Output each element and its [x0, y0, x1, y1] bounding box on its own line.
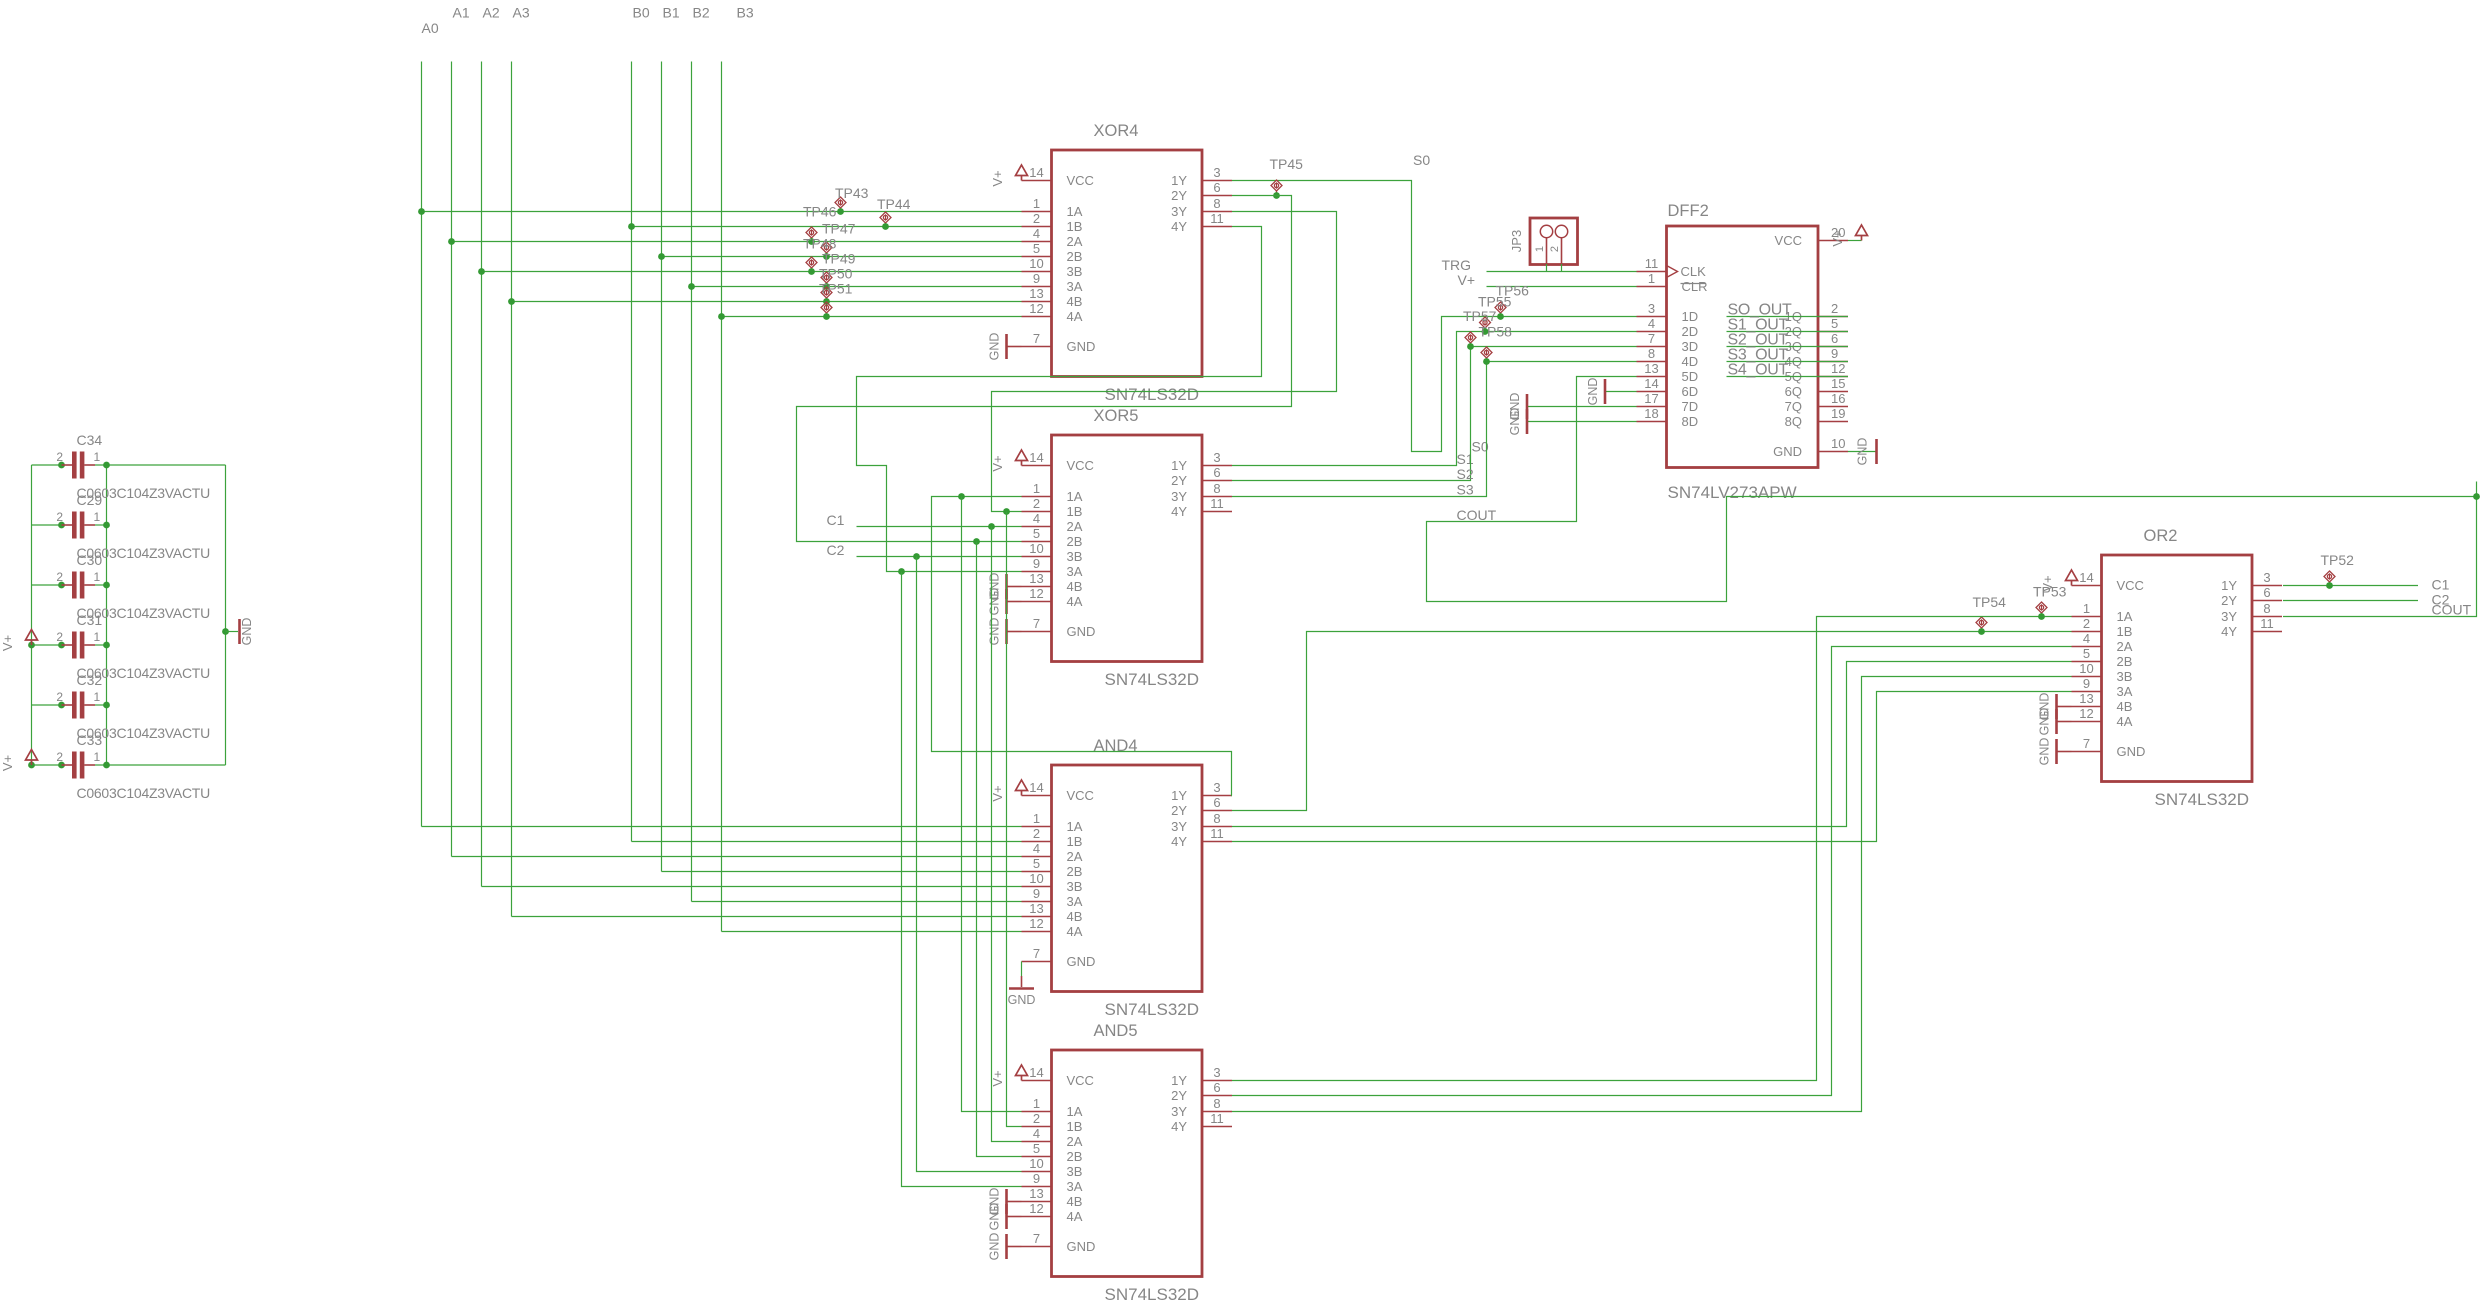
svg-text:C0603C104Z3VACTU: C0603C104Z3VACTU — [77, 785, 211, 801]
AND5 pin 3 (1Y) — [1171, 1065, 1232, 1088]
svg-text:5: 5 — [1831, 316, 1838, 331]
svg-text:10: 10 — [2079, 661, 2093, 676]
svg-text:GND: GND — [1773, 444, 1802, 459]
svg-text:2: 2 — [1033, 496, 1040, 511]
svg-text:1: 1 — [1033, 196, 1040, 211]
svg-text:11: 11 — [1210, 1111, 1224, 1126]
wire net S3: XOR5 3Y to DFF2 4D — [1232, 362, 1637, 497]
wire bus A3 vertical — [511, 62, 513, 917]
svg-text:4Y: 4Y — [1171, 219, 1187, 234]
wire net: XOR4 4Y to XOR5 3A — [857, 227, 1262, 572]
svg-text:GND: GND — [240, 618, 254, 646]
svg-text:SN74LS32D: SN74LS32D — [2155, 790, 2250, 809]
test point TP51 — [821, 302, 832, 317]
DFF2 pin 16 (7Q) — [1785, 391, 1848, 414]
svg-text:4A: 4A — [1067, 924, 1083, 939]
svg-text:GND: GND — [1067, 1239, 1096, 1254]
svg-text:A3: A3 — [513, 5, 530, 21]
svg-text:14: 14 — [1029, 780, 1043, 795]
IC AND4 (SN74LS32D) — [1022, 737, 1233, 1019]
AND4 pin 1 (1A) — [1022, 811, 1083, 834]
svg-text:4B: 4B — [1067, 909, 1083, 924]
svg-text:4B: 4B — [2117, 699, 2133, 714]
wire A1 to AND4 2A — [452, 856, 1022, 858]
svg-text:9: 9 — [1831, 346, 1838, 361]
svg-text:TP53: TP53 — [2033, 584, 2067, 600]
capacitor C31 (C0603C104Z3VACTU) — [32, 612, 211, 681]
svg-text:4: 4 — [2083, 631, 2090, 646]
DFF2 pin 4 (2D) — [1637, 316, 1699, 339]
svg-text:C31: C31 — [77, 612, 103, 628]
svg-text:4B: 4B — [1067, 579, 1083, 594]
svg-text:C1: C1 — [2432, 577, 2450, 593]
svg-text:GND: GND — [1067, 624, 1096, 639]
ground symbol at AND5 pin 7 (GND) — [988, 1233, 1022, 1261]
svg-text:AND4: AND4 — [1094, 737, 1138, 755]
wire branch C2 to AND5 3B — [917, 557, 1022, 1172]
ground symbol at AND4 pin 7 — [1008, 962, 1036, 1008]
wire DFF2 8D to ground — [1527, 421, 1637, 423]
svg-text:18: 18 — [1644, 406, 1658, 421]
OR2 body outline — [2102, 555, 2253, 782]
DFF2 pin 5 (2Q) — [1785, 316, 1848, 339]
wire branch to AND5 1B — [1007, 512, 1022, 1127]
AND4 pin 10 (3B) — [1022, 871, 1083, 894]
AND4 body outline — [1052, 765, 1203, 992]
svg-text:3A: 3A — [1067, 894, 1083, 909]
svg-text:13: 13 — [1029, 286, 1043, 301]
wire A0 to XOR4 1A — [422, 211, 1022, 213]
XOR4 pin 8 (3Y) — [1171, 196, 1232, 219]
junction at XOR5 2B row — [973, 538, 980, 545]
wire DFF2 6D to ground — [1605, 391, 1637, 393]
svg-text:6: 6 — [1213, 1080, 1220, 1095]
svg-text:6: 6 — [2263, 585, 2270, 600]
svg-text:7: 7 — [1033, 1231, 1040, 1246]
svg-text:12: 12 — [1029, 301, 1043, 316]
svg-text:4B: 4B — [1067, 294, 1083, 309]
XOR5 pin 11 (4Y) — [1171, 496, 1232, 519]
svg-text:GND: GND — [1586, 378, 1600, 406]
AND4 pin 6 (2Y) — [1171, 795, 1232, 818]
svg-text:1: 1 — [94, 450, 101, 464]
wire B1 to XOR4 2B — [662, 256, 1022, 258]
junction at XOR5 2A row — [988, 523, 995, 530]
wire B1 to AND4 2B — [662, 871, 1022, 873]
XOR4 pin 14 (VCC) — [1022, 165, 1094, 188]
svg-text:TP58: TP58 — [1479, 324, 1513, 340]
AND4 pin 4 (2A) — [1022, 841, 1083, 864]
svg-text:5D: 5D — [1682, 369, 1699, 384]
svg-text:4A: 4A — [2117, 714, 2133, 729]
XOR4 body outline — [1052, 150, 1203, 377]
junction at XOR5 3B row — [913, 553, 920, 560]
supply V+ at AND4 VCC — [1016, 780, 1028, 796]
svg-text:4: 4 — [1033, 226, 1040, 241]
junction GND tap on cap bank rail — [222, 628, 229, 635]
OR2 pin 3 (1Y) — [2221, 570, 2282, 593]
wire net: XOR4 2Y to XOR5 2B — [797, 196, 1292, 542]
AND5 pin 1 (1A) — [1022, 1096, 1083, 1119]
supply V+ (cap bank lower) — [26, 750, 38, 766]
svg-text:GND: GND — [1067, 954, 1096, 969]
svg-text:7: 7 — [1033, 616, 1040, 631]
svg-text:6: 6 — [1213, 465, 1220, 480]
wire B3 to AND4 4A — [722, 931, 1022, 933]
svg-text:1B: 1B — [1067, 219, 1083, 234]
wire net C1 to XOR5 2A — [857, 526, 1022, 528]
DFF2 pin 1 (CLR, active low) — [1637, 271, 1708, 294]
OR2 pin 12 (4A) — [2072, 706, 2133, 729]
svg-text:2: 2 — [56, 510, 63, 524]
svg-text:13: 13 — [1644, 361, 1658, 376]
svg-text:CLK: CLK — [1681, 264, 1707, 279]
wire net: AND5 3Y to OR2 3B — [1232, 677, 2072, 1112]
svg-text:1: 1 — [94, 630, 101, 644]
svg-text:8Q: 8Q — [1785, 414, 1802, 429]
svg-text:3B: 3B — [1067, 879, 1083, 894]
DFF2 pin 11 (CLK) — [1637, 256, 1707, 279]
svg-text:5: 5 — [1033, 856, 1040, 871]
svg-text:VCC: VCC — [1775, 233, 1802, 248]
svg-text:5: 5 — [2083, 646, 2090, 661]
svg-text:GND: GND — [1067, 339, 1096, 354]
wire net SO_OUT at DFF2 output — [1727, 316, 1849, 318]
test point TP55 — [1495, 302, 1506, 317]
XOR5 pin 6 (2Y) — [1171, 465, 1232, 488]
svg-text:7: 7 — [1033, 331, 1040, 346]
svg-text:GND: GND — [1508, 408, 1522, 436]
XOR4 pin 13 (4B) — [1022, 286, 1083, 309]
svg-text:OR2: OR2 — [2144, 527, 2178, 545]
svg-text:8: 8 — [1648, 346, 1655, 361]
OR2 pin 4 (2A) — [2072, 631, 2133, 654]
wire net: AND4 4Y to OR2 3A — [1232, 692, 2072, 842]
svg-text:3B: 3B — [1067, 1164, 1083, 1179]
svg-text:TP47: TP47 — [822, 221, 856, 237]
supply V+ at OR2 VCC — [2066, 570, 2078, 586]
svg-text:2A: 2A — [1067, 234, 1083, 249]
capacitor C33 (C0603C104Z3VACTU) — [32, 732, 226, 801]
XOR5 pin 5 (2B) — [1022, 526, 1083, 549]
AND5 pin 2 (1B) — [1022, 1111, 1083, 1134]
svg-text:V+: V+ — [990, 170, 1005, 186]
DFF2 pin 20 (VCC) — [1775, 225, 1848, 248]
svg-text:1: 1 — [1033, 811, 1040, 826]
wire DFF2 GND pin to ground — [1848, 451, 1876, 453]
svg-text:V+: V+ — [1458, 272, 1476, 288]
AND5 pin 7 (GND) — [1022, 1231, 1096, 1254]
svg-text:6: 6 — [1831, 331, 1838, 346]
junction V+ tap at C33 row — [28, 762, 35, 769]
svg-text:V+: V+ — [990, 455, 1005, 471]
wire net S1_OUT at DFF2 output — [1727, 331, 1849, 333]
svg-text:2: 2 — [2083, 616, 2090, 631]
AND5 pin 9 (3A) — [1022, 1171, 1083, 1194]
svg-text:GND: GND — [2117, 744, 2146, 759]
svg-text:2Y: 2Y — [1171, 803, 1187, 818]
ground symbol (cap bank) — [226, 618, 255, 646]
XOR4 pin 4 (2A) — [1022, 226, 1083, 249]
svg-text:V+: V+ — [990, 1070, 1005, 1086]
wire net S0: XOR4 1Y to DFF2 1D — [1232, 181, 1637, 452]
wire DFF2 7D to ground — [1527, 406, 1637, 408]
svg-text:7: 7 — [2083, 736, 2090, 751]
svg-text:5: 5 — [1033, 241, 1040, 256]
svg-text:C1: C1 — [827, 512, 845, 528]
svg-text:6: 6 — [1213, 180, 1220, 195]
wire net S4_OUT at DFF2 output — [1727, 376, 1849, 378]
svg-text:C33: C33 — [77, 732, 103, 748]
XOR4 pin 11 (4Y) — [1171, 211, 1232, 234]
svg-text:S3: S3 — [1457, 482, 1474, 498]
ground symbol at AND5 pin 12 (4A) — [988, 1203, 1022, 1231]
svg-text:3Y: 3Y — [1171, 204, 1187, 219]
junction A1 bus tap — [448, 238, 455, 245]
svg-text:4: 4 — [1033, 841, 1040, 856]
svg-text:2B: 2B — [1067, 534, 1083, 549]
wire JP3 pins down to TRG net — [1546, 264, 1548, 272]
svg-text:C2: C2 — [827, 542, 845, 558]
svg-text:14: 14 — [1029, 1065, 1043, 1080]
svg-text:3: 3 — [1213, 1065, 1220, 1080]
svg-text:4A: 4A — [1067, 594, 1083, 609]
OR2 pin 10 (3B) — [2072, 661, 2133, 684]
svg-text:5: 5 — [1033, 526, 1040, 541]
AND4 pin 7 (GND) — [1022, 946, 1096, 969]
XOR4 pin 2 (1B) — [1022, 211, 1083, 234]
wire net COUT: OR2 3Y loop to DFF2 5D — [1427, 377, 2477, 617]
wire branch to AND5 1A — [962, 497, 1022, 1112]
wire B0 to XOR4 1B — [632, 226, 1022, 228]
XOR4 pin 10 (3B) — [1022, 256, 1083, 279]
svg-text:1: 1 — [1033, 1096, 1040, 1111]
svg-text:4Y: 4Y — [1171, 1119, 1187, 1134]
svg-text:3B: 3B — [1067, 549, 1083, 564]
XOR4 pin 6 (2Y) — [1171, 180, 1232, 203]
wire net TRG to DFF2 CLK — [1487, 271, 1637, 273]
DFF2 pin 14 (6D) — [1637, 376, 1699, 399]
wire net C2 to XOR5 3B — [857, 556, 1022, 558]
wire B3 to XOR4 4A — [722, 316, 1022, 318]
ground symbol at XOR5 pin 12 (4A) — [988, 588, 1022, 616]
wire bus B2 vertical — [691, 62, 693, 902]
svg-text:3B: 3B — [1067, 264, 1083, 279]
ground symbol at DFF2 pin 10 — [1856, 438, 1877, 466]
ground symbol at DFF2 pin 17 (7D) — [1526, 394, 1529, 419]
svg-text:B1: B1 — [663, 5, 680, 21]
svg-text:8D: 8D — [1682, 414, 1699, 429]
svg-text:VCC: VCC — [1067, 458, 1094, 473]
XOR4 pin 7 (GND) — [1022, 331, 1096, 354]
wire bus A0 vertical — [421, 62, 423, 827]
svg-text:TP52: TP52 — [2321, 552, 2355, 568]
XOR5 pin 10 (3B) — [1022, 541, 1083, 564]
svg-text:6Q: 6Q — [1785, 384, 1802, 399]
XOR5 pin 3 (1Y) — [1171, 450, 1232, 473]
svg-text:2: 2 — [1549, 246, 1561, 252]
svg-text:DFF2: DFF2 — [1668, 202, 1709, 220]
OR2 pin 5 (2B) — [2072, 646, 2133, 669]
ground symbol at OR2 pin 7 (GND) — [2038, 738, 2072, 766]
svg-text:S0: S0 — [1413, 152, 1430, 168]
ground symbol at XOR5 pin 7 (GND) — [988, 618, 1022, 646]
svg-text:3Y: 3Y — [2221, 609, 2237, 624]
svg-text:3: 3 — [1213, 165, 1220, 180]
svg-text:4Y: 4Y — [1171, 504, 1187, 519]
svg-text:12: 12 — [1831, 361, 1845, 376]
svg-text:3: 3 — [1648, 301, 1655, 316]
svg-text:2: 2 — [56, 630, 63, 644]
svg-text:11: 11 — [2260, 616, 2274, 631]
svg-text:11: 11 — [1210, 826, 1224, 841]
OR2 pin 14 (VCC) — [2072, 570, 2144, 593]
DFF2 pin 19 (8Q) — [1785, 406, 1848, 429]
connector JP3 — [1509, 218, 1578, 265]
svg-text:3D: 3D — [1682, 339, 1699, 354]
svg-text:V+: V+ — [990, 785, 1005, 801]
ground symbol at XOR5 pin 13 (4B) — [988, 573, 1022, 601]
svg-text:14: 14 — [1644, 376, 1658, 391]
svg-text:XOR4: XOR4 — [1094, 122, 1139, 140]
svg-text:2A: 2A — [1067, 1134, 1083, 1149]
capacitor C29 (C0603C104Z3VACTU) — [32, 492, 211, 561]
XOR5 pin 14 (VCC) — [1022, 450, 1094, 473]
svg-text:3: 3 — [2263, 570, 2270, 585]
svg-text:GND: GND — [988, 1233, 1002, 1261]
svg-text:TP45: TP45 — [1270, 156, 1304, 172]
svg-text:4A: 4A — [1067, 1209, 1083, 1224]
AND4 pin 14 (VCC) — [1022, 780, 1094, 803]
svg-text:2D: 2D — [1682, 324, 1699, 339]
svg-text:9: 9 — [1033, 1171, 1040, 1186]
svg-text:2B: 2B — [2117, 654, 2133, 669]
test point TP54 — [1976, 617, 1987, 632]
svg-text:13: 13 — [2079, 691, 2093, 706]
wire capacitor bank left vertical (V+ rail) — [31, 465, 33, 765]
svg-text:V+: V+ — [1830, 230, 1845, 246]
svg-text:7Q: 7Q — [1785, 399, 1802, 414]
svg-text:1Y: 1Y — [1171, 173, 1187, 188]
svg-text:11: 11 — [1645, 256, 1659, 271]
OR2 pin 11 (4Y) — [2221, 616, 2282, 639]
wire A0 to AND4 1A — [422, 826, 1022, 828]
JP3 pin 2 lead — [1561, 238, 1563, 264]
svg-text:TP50: TP50 — [819, 266, 853, 282]
test point TP57 — [1480, 317, 1491, 332]
wire net: AND5 2Y to OR2 2A — [1232, 647, 2072, 1096]
svg-text:C30: C30 — [77, 552, 103, 568]
svg-text:GND: GND — [1856, 438, 1870, 466]
svg-text:GND: GND — [988, 588, 1002, 616]
svg-text:TP57: TP57 — [1463, 308, 1497, 324]
svg-text:1: 1 — [1033, 481, 1040, 496]
svg-text:1B: 1B — [1067, 1119, 1083, 1134]
DFF2 pin 2 (1Q) — [1785, 301, 1848, 324]
svg-text:12: 12 — [2079, 706, 2093, 721]
wire bus B1 vertical — [661, 62, 663, 872]
junction A3 bus tap — [508, 298, 515, 305]
XOR5 body outline — [1052, 435, 1203, 662]
svg-text:8: 8 — [2263, 601, 2270, 616]
wire branch to AND5 3A — [902, 572, 1022, 1187]
supply V+ at AND5 VCC — [1016, 1065, 1028, 1081]
svg-text:9: 9 — [2083, 676, 2090, 691]
svg-text:VCC: VCC — [1067, 1073, 1094, 1088]
svg-text:1Y: 1Y — [1171, 458, 1187, 473]
DFF2 pin 18 (8D) — [1637, 406, 1699, 429]
IC AND5 (SN74LS32D) — [1022, 1022, 1233, 1304]
AND5 pin 10 (3B) — [1022, 1156, 1083, 1179]
wire net C1 from OR2 1Y — [2283, 585, 2418, 587]
svg-text:VCC: VCC — [1067, 173, 1094, 188]
wire A3 to AND4 4B — [512, 916, 1022, 918]
svg-text:11: 11 — [1210, 211, 1224, 226]
XOR5 pin 9 (3A) — [1022, 556, 1083, 579]
wire branch to AND5 2B — [977, 542, 1022, 1157]
svg-text:A0: A0 — [422, 20, 439, 36]
svg-text:TP43: TP43 — [835, 185, 869, 201]
svg-text:C2: C2 — [2432, 592, 2450, 608]
XOR5 pin 8 (3Y) — [1171, 481, 1232, 504]
svg-text:4D: 4D — [1682, 354, 1699, 369]
capacitor C34 (C0603C104Z3VACTU) — [32, 432, 226, 501]
svg-text:B3: B3 — [737, 5, 754, 21]
svg-text:10: 10 — [1029, 541, 1043, 556]
svg-text:TP51: TP51 — [819, 281, 853, 297]
svg-text:2Y: 2Y — [2221, 593, 2237, 608]
AND5 pin 8 (3Y) — [1171, 1096, 1232, 1119]
svg-text:CLR: CLR — [1682, 279, 1708, 294]
svg-text:4B: 4B — [1067, 1194, 1083, 1209]
svg-text:8: 8 — [1213, 1096, 1220, 1111]
XOR5 pin 12 (4A) — [1022, 586, 1083, 609]
AND4 pin 13 (4B) — [1022, 901, 1083, 924]
svg-text:10: 10 — [1029, 1156, 1043, 1171]
DFF2 pin 6 (3Q) — [1785, 331, 1848, 354]
junction COUT corner — [2473, 493, 2480, 500]
wire capacitor bank right vertical — [106, 465, 108, 765]
XOR4 pin 12 (4A) — [1022, 301, 1083, 324]
ground symbol at OR2 pin 13 (4B) — [2038, 693, 2072, 721]
svg-text:TP54: TP54 — [1973, 594, 2007, 610]
svg-text:7: 7 — [1033, 946, 1040, 961]
svg-text:SN74LS32D: SN74LS32D — [1105, 1285, 1200, 1304]
AND5 pin 13 (4B) — [1022, 1186, 1083, 1209]
supply V+ at XOR5 VCC — [1016, 450, 1028, 466]
svg-text:SN74LS32D: SN74LS32D — [1105, 1000, 1200, 1019]
wire bus B0 vertical — [631, 62, 633, 842]
svg-text:2Y: 2Y — [1171, 188, 1187, 203]
svg-text:1: 1 — [1648, 271, 1655, 286]
svg-text:V+: V+ — [0, 755, 15, 771]
svg-text:6D: 6D — [1682, 384, 1699, 399]
svg-text:3: 3 — [1213, 450, 1220, 465]
svg-text:3Y: 3Y — [1171, 819, 1187, 834]
wire net: AND4 3Y to OR2 2B — [1232, 662, 2072, 827]
test point TP44 — [880, 212, 891, 227]
AND4 pin 5 (2B) — [1022, 856, 1083, 879]
svg-text:4Y: 4Y — [2221, 624, 2237, 639]
JP3 pin 1 lead — [1546, 238, 1548, 264]
wire COUT stub above junction — [2476, 482, 2478, 497]
XOR4 pin 1 (1A) — [1022, 196, 1083, 219]
junction A0 bus tap — [418, 208, 425, 215]
svg-text:2: 2 — [1033, 1111, 1040, 1126]
XOR5 pin 13 (4B) — [1022, 571, 1083, 594]
wire net C2 from OR2 2Y — [2283, 600, 2418, 602]
svg-text:1: 1 — [2083, 601, 2090, 616]
